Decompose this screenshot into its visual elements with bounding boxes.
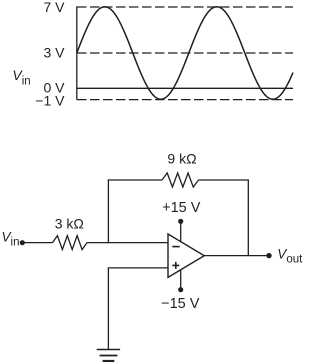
svg-text:Vin: Vin: [12, 67, 30, 87]
wire feedback top left: [108, 179, 162, 181]
op-amp U1 triangle: [168, 234, 204, 277]
-1 V gridline (dashed): [77, 99, 293, 101]
svg-text:−1 V: −1 V: [35, 92, 65, 108]
Vin terminal dot: [20, 240, 25, 245]
Vout terminal dot: [266, 253, 271, 258]
svg-text:Vin: Vin: [2, 229, 20, 248]
0 V line (solid): [77, 87, 293, 89]
svg-text:3 kΩ: 3 kΩ: [55, 216, 84, 232]
wire feedback top right: [199, 179, 249, 181]
svg-text:3 V: 3 V: [44, 44, 66, 60]
ground symbol: [97, 350, 120, 362]
-15 V supply wire: [180, 270, 182, 290]
Vin sine waveform: [77, 7, 293, 100]
op-amp noninverting input plus sign: [172, 262, 179, 269]
resistor R1 3 kOhm: [53, 236, 88, 250]
waveform y-axis: [76, 6, 78, 99]
svg-text:9 kΩ: 9 kΩ: [167, 151, 196, 167]
wire op-amp output: [204, 255, 269, 257]
+15 V supply dot: [178, 219, 183, 224]
+15 V supply wire: [180, 221, 182, 242]
wire Vin to R1: [22, 242, 52, 244]
3 V gridline (dashed): [77, 52, 293, 54]
svg-text:7 V: 7 V: [44, 0, 66, 15]
7 V gridline (dashed): [77, 6, 293, 8]
wire R1 to inverting input: [87, 242, 168, 244]
wire feedback left vertical: [107, 180, 109, 243]
op-amp inverting input minus sign: [172, 246, 179, 248]
wire feedback right vertical: [247, 180, 249, 256]
svg-text:Vout: Vout: [277, 246, 303, 265]
wire to ground: [107, 268, 109, 350]
svg-text:+15 V: +15 V: [162, 200, 201, 216]
resistor R2 9 kOhm: [162, 173, 199, 187]
svg-text:−15 V: −15 V: [161, 296, 200, 312]
wire noninverting input: [108, 267, 168, 269]
-15 V supply dot: [178, 287, 183, 292]
